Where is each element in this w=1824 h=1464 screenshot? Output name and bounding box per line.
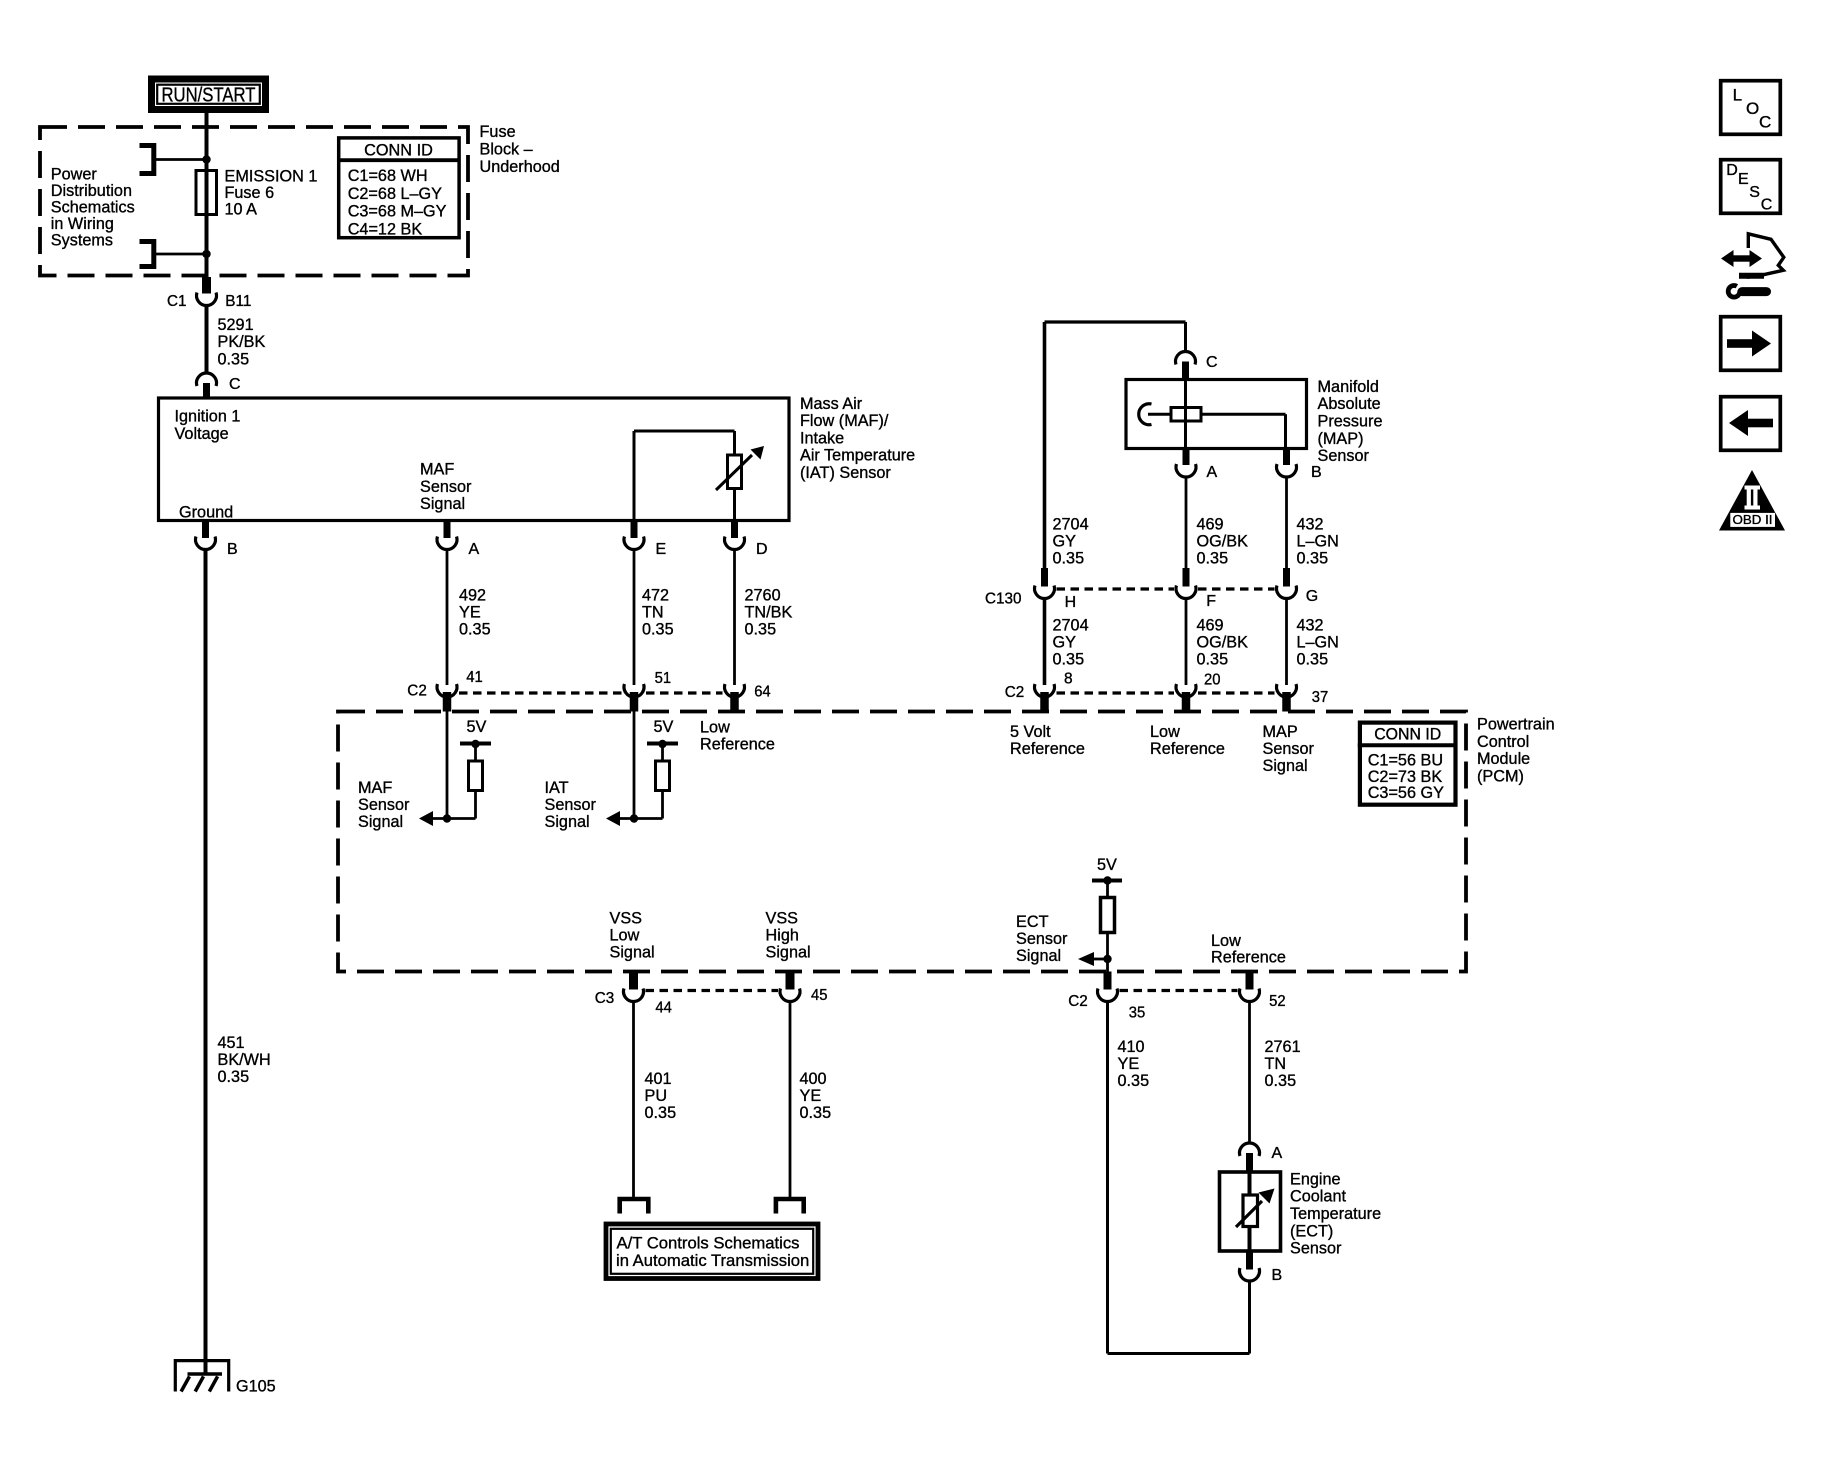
svg-text:0.35: 0.35 bbox=[1053, 649, 1085, 668]
svg-text:MAF: MAF bbox=[420, 460, 454, 479]
svg-text:C2: C2 bbox=[407, 683, 427, 700]
svg-text:B: B bbox=[1272, 1267, 1283, 1284]
svg-text:Absolute: Absolute bbox=[1318, 394, 1381, 413]
svg-text:5V: 5V bbox=[1097, 855, 1118, 874]
svg-text:Mass Air: Mass Air bbox=[800, 394, 863, 413]
svg-text:C3=56 GY: C3=56 GY bbox=[1368, 783, 1444, 802]
svg-text:in Automatic Transmission: in Automatic Transmission bbox=[616, 1251, 809, 1270]
svg-text:0.35: 0.35 bbox=[218, 349, 250, 368]
svg-text:Powertrain: Powertrain bbox=[1477, 715, 1555, 734]
svg-text:C: C bbox=[1761, 196, 1773, 213]
svg-text:RUN/START: RUN/START bbox=[162, 84, 256, 107]
svg-text:G: G bbox=[1306, 588, 1318, 605]
svg-text:Signal: Signal bbox=[420, 494, 465, 513]
svg-text:A: A bbox=[469, 541, 480, 558]
svg-text:Signal: Signal bbox=[1263, 756, 1308, 775]
svg-text:E: E bbox=[656, 541, 667, 558]
svg-text:Temperature: Temperature bbox=[1290, 1204, 1381, 1223]
svg-text:C1=68 WH: C1=68 WH bbox=[348, 166, 428, 185]
svg-text:Signal: Signal bbox=[610, 942, 655, 961]
svg-text:Signal: Signal bbox=[545, 812, 590, 831]
svg-text:0.35: 0.35 bbox=[1197, 649, 1229, 668]
svg-text:B: B bbox=[1311, 464, 1322, 481]
svg-text:Manifold: Manifold bbox=[1318, 377, 1379, 396]
svg-text:Fuse: Fuse bbox=[480, 122, 516, 141]
svg-text:41: 41 bbox=[466, 669, 483, 686]
svg-text:0.35: 0.35 bbox=[1053, 548, 1085, 567]
svg-text:B11: B11 bbox=[225, 293, 251, 310]
svg-text:Signal: Signal bbox=[358, 812, 403, 831]
svg-text:OBD II: OBD II bbox=[1733, 513, 1773, 527]
svg-text:C: C bbox=[1759, 113, 1771, 132]
svg-text:(MAP): (MAP) bbox=[1318, 429, 1364, 448]
svg-text:0.35: 0.35 bbox=[800, 1103, 832, 1122]
svg-text:Systems: Systems bbox=[51, 230, 113, 249]
svg-text:Coolant: Coolant bbox=[1290, 1187, 1346, 1206]
svg-text:PK/BK: PK/BK bbox=[218, 332, 266, 351]
svg-text:45: 45 bbox=[811, 987, 828, 1004]
svg-text:5V: 5V bbox=[467, 717, 488, 736]
svg-text:C130: C130 bbox=[985, 591, 1022, 608]
svg-text:Sensor: Sensor bbox=[1290, 1239, 1342, 1258]
svg-text:Reference: Reference bbox=[1010, 739, 1085, 758]
svg-text:0.35: 0.35 bbox=[218, 1067, 250, 1086]
svg-text:(PCM): (PCM) bbox=[1477, 767, 1524, 786]
svg-text:Reference: Reference bbox=[1150, 739, 1225, 758]
svg-text:A: A bbox=[1207, 464, 1218, 481]
svg-text:Signal: Signal bbox=[1016, 946, 1061, 965]
svg-text:CONN ID: CONN ID bbox=[1374, 724, 1441, 743]
svg-text:C3=68 M–GY: C3=68 M–GY bbox=[348, 202, 447, 221]
svg-text:Signal: Signal bbox=[766, 942, 811, 961]
svg-text:0.35: 0.35 bbox=[459, 619, 491, 638]
svg-text:G105: G105 bbox=[236, 1377, 276, 1396]
svg-text:51: 51 bbox=[655, 670, 672, 687]
svg-text:Ignition 1: Ignition 1 bbox=[175, 407, 241, 426]
svg-text:20: 20 bbox=[1204, 672, 1221, 689]
svg-text:C2: C2 bbox=[1005, 684, 1025, 701]
svg-text:0.35: 0.35 bbox=[1197, 548, 1229, 567]
svg-text:H: H bbox=[1065, 594, 1077, 611]
svg-text:0.35: 0.35 bbox=[1297, 649, 1329, 668]
svg-text:Pressure: Pressure bbox=[1318, 412, 1383, 431]
svg-text:Module: Module bbox=[1477, 749, 1530, 768]
svg-text:C: C bbox=[229, 376, 241, 393]
svg-text:C1: C1 bbox=[167, 293, 187, 310]
svg-text:Control: Control bbox=[1477, 732, 1529, 751]
svg-text:C: C bbox=[1206, 354, 1218, 371]
svg-text:44: 44 bbox=[655, 1000, 672, 1017]
svg-text:Reference: Reference bbox=[1211, 948, 1286, 967]
svg-text:CONN ID: CONN ID bbox=[364, 140, 433, 159]
svg-text:Voltage: Voltage bbox=[175, 424, 229, 443]
svg-text:(IAT) Sensor: (IAT) Sensor bbox=[800, 463, 891, 482]
svg-text:0.35: 0.35 bbox=[1297, 548, 1329, 567]
svg-text:B: B bbox=[227, 541, 238, 558]
svg-text:37: 37 bbox=[1312, 689, 1329, 706]
svg-text:Ground: Ground bbox=[179, 503, 233, 522]
svg-text:O: O bbox=[1746, 99, 1759, 118]
svg-text:10 A: 10 A bbox=[225, 200, 258, 219]
svg-text:Air Temperature: Air Temperature bbox=[800, 446, 915, 465]
svg-text:52: 52 bbox=[1269, 993, 1286, 1010]
svg-text:C2=68 L–GY: C2=68 L–GY bbox=[348, 184, 442, 203]
svg-text:0.35: 0.35 bbox=[1118, 1071, 1150, 1090]
svg-text:Underhood: Underhood bbox=[480, 157, 560, 176]
svg-text:L: L bbox=[1733, 86, 1742, 105]
svg-text:Intake: Intake bbox=[800, 428, 844, 447]
svg-text:0.35: 0.35 bbox=[745, 619, 777, 638]
svg-text:5291: 5291 bbox=[218, 315, 254, 334]
svg-text:5V: 5V bbox=[654, 717, 675, 736]
svg-text:35: 35 bbox=[1129, 1005, 1146, 1022]
svg-text:Engine: Engine bbox=[1290, 1169, 1341, 1188]
svg-text:E: E bbox=[1738, 171, 1749, 188]
svg-text:0.35: 0.35 bbox=[642, 619, 674, 638]
svg-text:64: 64 bbox=[754, 684, 771, 701]
svg-text:0.35: 0.35 bbox=[1265, 1071, 1297, 1090]
svg-text:Block –: Block – bbox=[480, 140, 534, 159]
svg-text:S: S bbox=[1749, 184, 1760, 201]
svg-text:(ECT): (ECT) bbox=[1290, 1221, 1333, 1240]
svg-text:A/T Controls Schematics: A/T Controls Schematics bbox=[617, 1234, 800, 1253]
svg-text:C2: C2 bbox=[1068, 993, 1088, 1010]
svg-text:Sensor: Sensor bbox=[420, 477, 472, 496]
svg-text:Sensor: Sensor bbox=[1318, 446, 1370, 465]
svg-text:0.35: 0.35 bbox=[645, 1103, 677, 1122]
svg-text:Reference: Reference bbox=[700, 734, 775, 753]
svg-text:C4=12 BK: C4=12 BK bbox=[348, 219, 423, 238]
svg-text:D: D bbox=[1726, 162, 1738, 179]
svg-text:8: 8 bbox=[1064, 671, 1073, 688]
svg-text:F: F bbox=[1206, 593, 1216, 610]
svg-text:A: A bbox=[1272, 1145, 1283, 1162]
svg-text:Flow (MAF)/: Flow (MAF)/ bbox=[800, 411, 889, 430]
svg-text:C3: C3 bbox=[595, 990, 615, 1007]
svg-text:D: D bbox=[756, 541, 768, 558]
